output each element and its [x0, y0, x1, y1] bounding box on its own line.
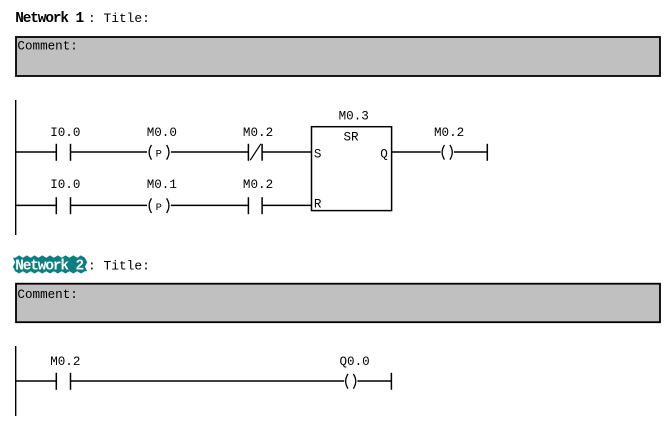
- svg-text:M0.1: M0.1: [147, 178, 177, 192]
- svg-text:Network 1: Network 1: [15, 11, 84, 27]
- svg-text:S: S: [314, 147, 322, 161]
- svg-text:Comment:: Comment:: [17, 40, 77, 54]
- svg-text:M0.3: M0.3: [339, 109, 369, 123]
- svg-text:M0.2: M0.2: [243, 178, 273, 192]
- svg-text:M0.2: M0.2: [243, 126, 273, 140]
- svg-text:R: R: [314, 198, 322, 212]
- svg-text:: Title:: : Title:: [88, 11, 150, 26]
- svg-text:M0.2: M0.2: [50, 355, 80, 369]
- svg-text:I0.0: I0.0: [50, 178, 80, 192]
- svg-text:M0.2: M0.2: [434, 126, 464, 140]
- svg-text:M0.0: M0.0: [147, 126, 177, 140]
- svg-text:I0.0: I0.0: [50, 126, 80, 140]
- svg-text:Q0.0: Q0.0: [340, 355, 370, 369]
- svg-text:: Title:: : Title:: [88, 259, 150, 274]
- svg-text:P: P: [156, 202, 162, 214]
- svg-text:Network 2: Network 2: [15, 259, 83, 275]
- svg-text:Q: Q: [380, 147, 388, 161]
- svg-text:Comment:: Comment:: [17, 288, 77, 302]
- svg-text:P: P: [156, 148, 162, 160]
- svg-text:SR: SR: [344, 131, 360, 145]
